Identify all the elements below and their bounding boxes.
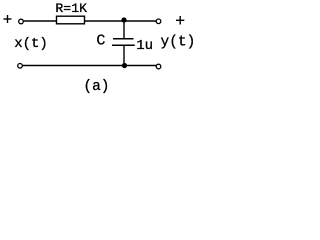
wire capacitor top lead: [123, 21, 125, 39]
svg-text:C: C: [96, 32, 105, 49]
node junction dot bottom: [122, 63, 127, 68]
svg-text:R=1K: R=1K: [55, 1, 87, 16]
capacitor C1 bottom plate: [112, 44, 135, 46]
wire top-left segment: [24, 20, 57, 22]
svg-text:(a): (a): [83, 79, 109, 95]
terminal circle bottom-right: [156, 64, 161, 69]
wire top-middle segment: [85, 20, 125, 22]
node plus sign left (+): [4, 15, 12, 23]
svg-text:x(t): x(t): [14, 36, 48, 52]
terminal circle top-right: [156, 19, 161, 24]
wire top-right segment: [124, 20, 156, 22]
svg-text:y(t): y(t): [161, 34, 196, 50]
node plus sign right (+): [176, 16, 184, 25]
node junction dot top: [121, 17, 126, 22]
resistor R1 body: [57, 16, 85, 24]
capacitor C1 top plate: [113, 38, 134, 40]
terminal circle bottom-left: [18, 64, 23, 69]
wire bottom rail: [23, 65, 157, 67]
svg-text:1u: 1u: [136, 38, 153, 54]
wire capacitor bottom lead: [123, 45, 125, 65]
terminal circle top-left: [19, 19, 24, 24]
